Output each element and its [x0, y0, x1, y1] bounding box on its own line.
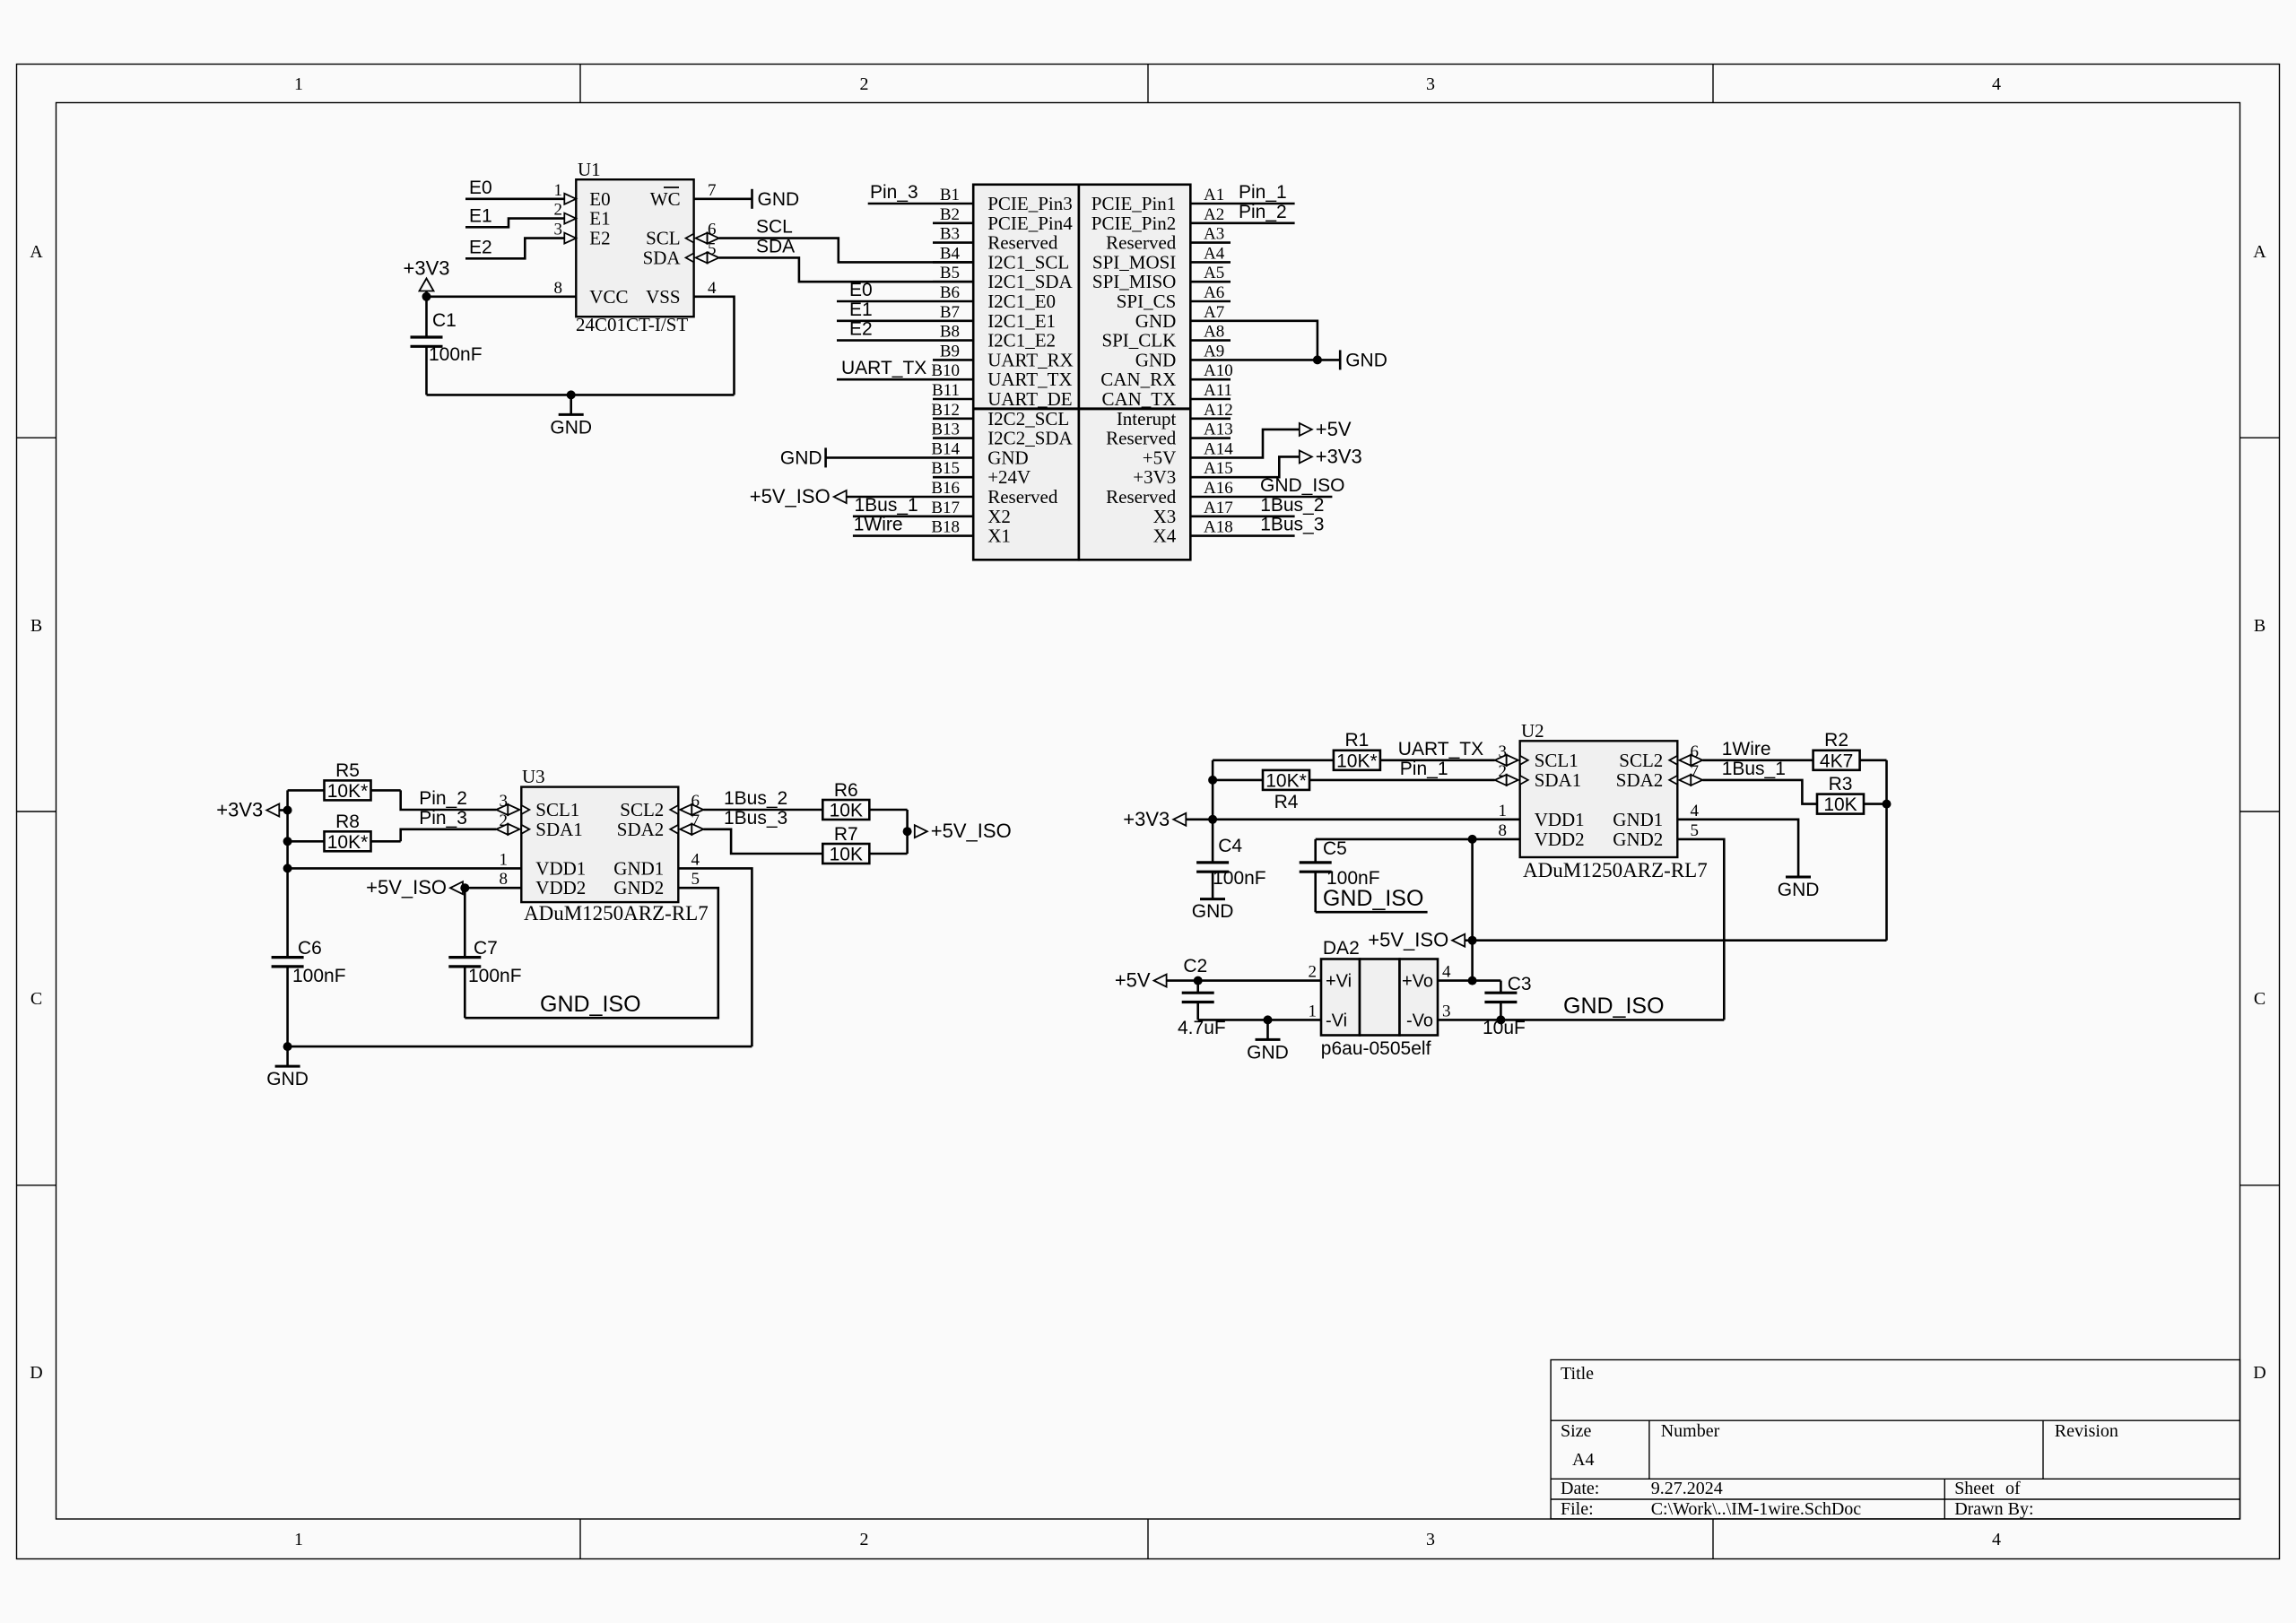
svg-text:SCL: SCL: [646, 228, 681, 249]
connector pin name A11 CAN_TX: [1101, 388, 1176, 410]
junction at U1 VCC and C1: [422, 292, 431, 301]
junction +Vo rail: [1468, 976, 1477, 985]
svg-text:R3: R3: [1829, 774, 1853, 794]
wire stub A8: [1190, 339, 1231, 342]
U2 pin number 2: [1499, 762, 1508, 781]
svg-text:B15: B15: [931, 459, 960, 478]
svg-text:A4: A4: [1204, 244, 1225, 263]
svg-text:C2: C2: [1183, 956, 1207, 976]
svg-text:Reserved: Reserved: [1106, 486, 1177, 508]
connector pin number B1: [940, 186, 960, 204]
wire R2R3 rail: [1885, 760, 1888, 941]
svg-text:Drawn By:: Drawn By:: [1954, 1499, 2033, 1519]
svg-text:A3: A3: [1204, 225, 1224, 244]
connector pin number B18: [931, 518, 960, 537]
connector pin name B3 Reserved: [987, 232, 1058, 254]
connector pin name A6 SPI_CS: [1117, 291, 1177, 312]
wire A18 1Bus_3: [1190, 534, 1294, 537]
R6 designator: [834, 780, 858, 801]
svg-text:C3: C3: [1508, 974, 1532, 994]
connector pin name B9 UART_RX: [987, 349, 1074, 370]
connector pin name A3 Reserved: [1106, 232, 1177, 254]
svg-text:10K: 10K: [830, 845, 863, 865]
connector pin name A7 GND: [1135, 310, 1177, 332]
U3 pin name SCL1: [535, 799, 579, 820]
C6 value 100nF: [292, 966, 346, 986]
svg-text:1: 1: [554, 181, 563, 200]
R5 designator: [335, 760, 360, 781]
U1 pin arrow SDA bidirectional: [686, 252, 719, 263]
svg-text:10K*: 10K*: [1336, 751, 1378, 771]
svg-text:E1: E1: [589, 208, 610, 230]
U1 pin name SCL: [646, 228, 681, 249]
svg-text:D: D: [30, 1363, 42, 1383]
svg-text:I2C1_E1: I2C1_E1: [987, 310, 1056, 332]
svg-text:X1: X1: [987, 525, 1011, 547]
svg-text:1: 1: [500, 850, 509, 869]
svg-text:B: B: [30, 616, 42, 636]
svg-text:8: 8: [554, 279, 563, 298]
svg-text:I2C2_SDA: I2C2_SDA: [987, 428, 1073, 449]
svg-text:CAN_RX: CAN_RX: [1100, 369, 1176, 390]
svg-text:2: 2: [860, 74, 869, 94]
net label GND_ISO at A16: [1260, 475, 1345, 496]
wire U2 SCL2 to R2: [1702, 759, 1813, 761]
connector pin name B6 I2C1_E0: [987, 291, 1056, 312]
svg-text:B13: B13: [931, 421, 960, 439]
connector pin number A7: [1204, 303, 1224, 322]
connector pin name B7 I2C1_E1: [987, 310, 1056, 332]
svg-text:5: 5: [691, 870, 700, 889]
connector pin name A2 PCIE_Pin2: [1091, 213, 1177, 234]
svg-text:C5: C5: [1323, 838, 1347, 859]
connector pin number B15: [931, 459, 960, 478]
connector pin name A16 Reserved: [1106, 486, 1177, 508]
svg-text:+3V3: +3V3: [1316, 445, 1362, 467]
svg-text:C: C: [30, 989, 42, 1009]
svg-text:B14: B14: [931, 439, 960, 458]
svg-text:1: 1: [1309, 1002, 1318, 1020]
connector pin name B17 X2: [987, 506, 1011, 527]
svg-text:B8: B8: [940, 323, 960, 342]
R2 designator: [1824, 730, 1848, 751]
connector pin name A12 Interupt: [1117, 408, 1177, 430]
power port +5V_ISO at B16: [750, 485, 847, 508]
connector pin number B17: [931, 499, 960, 517]
U1 pin arrow E1 input: [564, 213, 576, 224]
svg-text:E2: E2: [849, 319, 873, 340]
svg-text:3: 3: [1426, 1530, 1435, 1549]
svg-text:A16: A16: [1204, 479, 1233, 498]
net label E1 at B7: [849, 299, 873, 320]
net label E2 at B8: [849, 319, 873, 340]
svg-text:B10: B10: [931, 361, 960, 380]
svg-text:1: 1: [294, 74, 303, 94]
wire +3V3 rail at U3: [286, 790, 289, 957]
svg-text:+3V3: +3V3: [216, 799, 263, 821]
power port +3V3 at U2: [1123, 808, 1519, 830]
net label 1Bus_3 at U3: [724, 808, 787, 829]
junction rail R8: [283, 837, 292, 846]
svg-text:U2: U2: [1521, 720, 1544, 742]
connector pin name A18 X4: [1153, 525, 1177, 547]
U1 pin name E1: [589, 208, 610, 230]
U1 pin arrow SCL bidirectional: [686, 233, 719, 244]
connector pin name A15 +3V3: [1133, 466, 1176, 488]
U2 pin name VDD2: [1535, 829, 1585, 850]
svg-text:1Wire: 1Wire: [1722, 739, 1771, 759]
U3 pin name VDD2: [535, 877, 586, 898]
svg-text:PCIE_Pin4: PCIE_Pin4: [987, 213, 1073, 234]
DA2 pin number 2: [1309, 963, 1318, 982]
svg-text:E1: E1: [469, 205, 492, 226]
capacitor C6: [272, 958, 304, 1047]
connector pin number B5: [940, 264, 960, 282]
connector pin number A17: [1204, 499, 1233, 517]
wire A17 1Bus_2: [1190, 515, 1294, 517]
U1 pin name E2: [589, 228, 610, 249]
svg-text:+5V: +5V: [1143, 447, 1177, 468]
connector pin number A11: [1204, 381, 1232, 400]
svg-text:B11: B11: [932, 381, 960, 400]
wire A1 Pin_1: [1190, 203, 1294, 205]
svg-text:A4: A4: [1572, 1450, 1594, 1470]
junction C2 top: [1194, 976, 1203, 985]
wire B17 1Bus_1: [853, 515, 973, 517]
net label SCL: [756, 217, 793, 238]
connector pin name B4 I2C1_SCL: [987, 251, 1069, 273]
svg-text:X4: X4: [1153, 525, 1177, 547]
U1 pin arrow E2 input: [564, 233, 576, 244]
U3 pin name SDA1: [535, 819, 583, 840]
svg-text:E0: E0: [589, 188, 610, 210]
svg-text:C7: C7: [474, 938, 498, 959]
wire stub A5: [1190, 281, 1231, 283]
capacitor C3: [1484, 981, 1517, 1020]
U1 pin number 8: [554, 279, 563, 298]
svg-text:A18: A18: [1204, 518, 1233, 537]
svg-text:1Bus_3: 1Bus_3: [724, 808, 787, 829]
IC U3 body: [521, 787, 678, 903]
wire R5 to U3 SCL1: [401, 790, 497, 810]
ground symbol below U3: [266, 1046, 309, 1089]
wire U2 GND1 to ground: [1677, 820, 1798, 877]
svg-text:GND: GND: [1247, 1042, 1289, 1063]
svg-text:X3: X3: [1153, 506, 1177, 527]
svg-text:VDD1: VDD1: [535, 857, 586, 879]
wire A9 to GND bar: [1190, 359, 1340, 361]
wire stub A4: [1190, 261, 1231, 264]
connector pin number A4: [1204, 244, 1225, 263]
wire B18 1Wire: [853, 534, 973, 537]
svg-text:Date:: Date:: [1561, 1479, 1599, 1498]
svg-text:VDD2: VDD2: [1535, 829, 1585, 850]
C1 designator: [432, 310, 457, 331]
svg-text:GND: GND: [1345, 350, 1387, 370]
U2 pin name SDA1: [1535, 769, 1582, 791]
svg-text:+5V: +5V: [1115, 969, 1151, 992]
svg-text:VDD2: VDD2: [535, 877, 586, 898]
svg-text:A10: A10: [1204, 361, 1233, 380]
C2 value 4.7uF: [1178, 1018, 1226, 1038]
U1 pin name E0: [589, 188, 610, 210]
wire +5V_ISO rail at U2: [1471, 839, 1474, 981]
C5 value 100nF: [1326, 868, 1380, 889]
wire GND_ISO net at DA2: [1438, 1019, 1724, 1021]
svg-text:Pin_3: Pin_3: [870, 182, 918, 203]
svg-text:VDD1: VDD1: [1535, 809, 1585, 830]
svg-text:7: 7: [708, 181, 717, 200]
svg-text:R1: R1: [1344, 730, 1369, 751]
svg-text:A14: A14: [1204, 439, 1233, 458]
wire A16 GND_ISO: [1190, 496, 1332, 499]
svg-text:1: 1: [294, 1530, 303, 1549]
svg-text:Pin_1: Pin_1: [1239, 182, 1287, 203]
svg-text:A17: A17: [1204, 499, 1233, 517]
svg-text:X2: X2: [987, 506, 1011, 527]
svg-text:UART_TX: UART_TX: [987, 369, 1072, 390]
R3 designator: [1829, 774, 1853, 794]
svg-text:1: 1: [1499, 802, 1508, 820]
wire B1 Pin_3: [868, 203, 973, 205]
connector pin number A5: [1204, 264, 1224, 282]
U2 pin name VDD1: [1535, 809, 1585, 830]
svg-text:+Vo: +Vo: [1402, 972, 1433, 992]
svg-text:B4: B4: [940, 244, 961, 263]
svg-text:C6: C6: [298, 938, 322, 959]
wire DA2 +Vo to C3: [1438, 979, 1500, 982]
U1 pin name WC with overline: [650, 187, 681, 210]
R7 designator: [834, 824, 858, 845]
svg-text:8: 8: [500, 870, 509, 889]
C7 value 100nF: [468, 966, 522, 986]
U1 designator: [578, 159, 601, 180]
net label 1Bus_3 at A18: [1260, 515, 1324, 535]
net label SDA: [756, 236, 795, 256]
connector pin name B2 PCIE_Pin4: [987, 213, 1073, 234]
wire A14 to +5V: [1190, 430, 1300, 458]
svg-text:B18: B18: [931, 518, 960, 537]
svg-text:B9: B9: [940, 342, 960, 360]
junction rail R4: [1208, 776, 1217, 785]
connector pin name B1 PCIE_Pin3: [987, 193, 1073, 214]
connector pin name A4 SPI_MOSI: [1092, 251, 1176, 273]
svg-text:SDA2: SDA2: [617, 819, 665, 840]
svg-text:C:\Work\..\IM-1wire.SchDoc: C:\Work\..\IM-1wire.SchDoc: [1651, 1499, 1862, 1519]
C1 value 100nF: [429, 344, 483, 365]
svg-text:E2: E2: [469, 237, 492, 257]
connector pin name A8 SPI_CLK: [1101, 330, 1176, 352]
svg-text:SDA1: SDA1: [1535, 769, 1582, 791]
svg-text:E2: E2: [589, 228, 610, 249]
connector pin name A14 +5V: [1143, 447, 1177, 468]
DA2 pin number 4: [1442, 963, 1451, 982]
wire U3 SCL2 to R6: [703, 809, 822, 811]
U3 pin arrow SDA1: [496, 824, 529, 835]
svg-text:R8: R8: [335, 811, 360, 832]
wire stub B12: [933, 417, 973, 420]
wire B7 E1: [837, 319, 973, 322]
svg-text:R7: R7: [834, 824, 858, 845]
svg-text:GND2: GND2: [613, 877, 664, 898]
svg-text:D: D: [2253, 1363, 2266, 1383]
svg-text:A2: A2: [1204, 205, 1224, 224]
power port +3V3 at U3: [216, 799, 287, 821]
net label 1Bus_1 at U2: [1722, 759, 1786, 779]
svg-text:1Bus_1: 1Bus_1: [855, 495, 918, 516]
C4 designator: [1218, 836, 1242, 856]
wire +5V to DA2 +Vi: [1167, 979, 1321, 982]
svg-text:GND: GND: [1778, 880, 1820, 900]
svg-text:1Bus_2: 1Bus_2: [1260, 495, 1324, 516]
svg-text:SPI_MISO: SPI_MISO: [1092, 271, 1176, 292]
connector pin name A1 PCIE_Pin1: [1091, 193, 1177, 214]
resistor R5: [288, 780, 401, 802]
wire U1 pin4 VSS down: [694, 297, 735, 395]
U3 pin number 5: [691, 870, 700, 889]
svg-text:B17: B17: [931, 499, 960, 517]
net label E1 at U1: [469, 205, 492, 226]
svg-text:Sheet: Sheet: [1954, 1479, 1995, 1498]
connector pin name B16 Reserved: [987, 486, 1058, 508]
wire A15 to +3V3: [1190, 456, 1300, 477]
U1 pin number 6: [708, 221, 717, 239]
ground symbol below C4: [1192, 899, 1234, 922]
svg-text:-Vo: -Vo: [1406, 1011, 1433, 1030]
U3 pin number 4: [691, 850, 700, 869]
svg-text:100nF: 100nF: [1213, 868, 1266, 889]
wire +3V3 rail at U2: [1212, 760, 1214, 863]
U1 pin name VSS: [646, 286, 681, 308]
U1 pin number 7: [708, 181, 717, 200]
wire E1 to U1 pin2: [465, 219, 564, 228]
connector pin number B10: [931, 361, 960, 380]
U1 pin number 5: [708, 239, 717, 258]
power port +5V_ISO at U3 VDD2: [366, 876, 521, 898]
U1 pin number 1: [554, 181, 563, 200]
svg-text:U1: U1: [578, 159, 601, 180]
connector pin name B15 +24V: [987, 466, 1031, 488]
wire stub B15: [933, 476, 973, 479]
svg-text:2: 2: [554, 201, 563, 220]
connector pin number B9: [940, 342, 960, 360]
svg-text:+5V_ISO: +5V_ISO: [750, 485, 831, 508]
capacitor C2: [1182, 981, 1214, 1020]
svg-text:Size: Size: [1561, 1421, 1592, 1441]
U3 pin arrow SCL1: [496, 804, 529, 815]
svg-text:of: of: [2005, 1479, 2021, 1498]
ground bar at U1 WC: [752, 189, 800, 210]
resistor R3: [1817, 794, 1887, 816]
svg-text:4: 4: [1442, 963, 1451, 982]
capacitor C5: [1300, 839, 1332, 912]
svg-text:SPI_CLK: SPI_CLK: [1101, 330, 1176, 352]
svg-text:VCC: VCC: [589, 286, 628, 308]
U3 pin name VDD1: [535, 857, 586, 879]
wire stub B13: [933, 437, 973, 439]
wire +5V_ISO to R2R3 rail: [1473, 939, 1887, 942]
C4 value 100nF: [1213, 868, 1266, 889]
U2 pin number 5: [1691, 821, 1700, 840]
svg-text:SPI_CS: SPI_CS: [1117, 291, 1177, 312]
svg-text:3: 3: [1442, 1002, 1451, 1020]
C5 designator: [1323, 838, 1347, 859]
svg-text:E0: E0: [849, 280, 873, 300]
connector pin number B3: [940, 225, 960, 244]
capacitor C4: [1196, 863, 1229, 899]
svg-text:R6: R6: [834, 780, 858, 801]
svg-text:GND2: GND2: [1613, 829, 1663, 850]
DA2 designator: [1323, 938, 1360, 959]
svg-text:C4: C4: [1218, 836, 1242, 856]
svg-text:SCL2: SCL2: [620, 799, 664, 820]
connector pin number B8: [940, 323, 960, 342]
svg-text:B3: B3: [940, 225, 960, 244]
C2 designator: [1183, 956, 1207, 976]
svg-text:B5: B5: [940, 264, 960, 282]
connector pin name B14 GND: [987, 447, 1029, 468]
power port +5V_ISO at U2: [1368, 929, 1472, 951]
svg-text:UART_TX: UART_TX: [841, 358, 926, 378]
ground bar at B14: [780, 447, 826, 468]
net label UART_TX at U2: [1398, 739, 1483, 759]
svg-text:3: 3: [554, 221, 563, 239]
svg-text:3: 3: [1426, 74, 1435, 94]
svg-text:10K: 10K: [830, 801, 863, 821]
net label 1Bus_1 at B17: [855, 495, 918, 516]
svg-text:Reserved: Reserved: [1106, 428, 1177, 449]
svg-text:I2C1_E0: I2C1_E0: [987, 291, 1056, 312]
C7 designator: [474, 938, 498, 959]
junction -Vi ground: [1264, 1015, 1273, 1024]
U1 pin name VCC: [589, 286, 628, 308]
svg-text:Revision: Revision: [2055, 1421, 2118, 1441]
U2 pin name GND1: [1613, 809, 1663, 830]
svg-text:I2C1_SDA: I2C1_SDA: [987, 271, 1073, 292]
svg-text:B2: B2: [940, 205, 960, 224]
svg-text:+3V3: +3V3: [404, 257, 450, 280]
svg-text:1Bus_3: 1Bus_3: [1260, 515, 1324, 535]
junction C3 bottom: [1496, 1015, 1505, 1024]
U2 pin name GND2: [1613, 829, 1663, 850]
connector pin name A17 X3: [1153, 506, 1177, 527]
svg-text:B6: B6: [940, 283, 960, 302]
connector pin number A16: [1204, 479, 1233, 498]
svg-text:24C01CT-I/ST: 24C01CT-I/ST: [576, 314, 688, 335]
connector pin name B13 I2C2_SDA: [987, 428, 1073, 449]
svg-text:PCIE_Pin2: PCIE_Pin2: [1091, 213, 1177, 234]
svg-text:Interupt: Interupt: [1117, 408, 1177, 430]
svg-text:GND_ISO: GND_ISO: [1323, 886, 1424, 911]
svg-text:8: 8: [1499, 821, 1508, 840]
U3 pin number 1: [500, 850, 509, 869]
svg-text:10K*: 10K*: [327, 781, 369, 802]
net label 1Wire at B18: [854, 515, 903, 535]
wire stub B11: [933, 398, 973, 401]
DA2 pin name -Vo: [1406, 1011, 1433, 1030]
C6 designator: [298, 938, 322, 959]
DA2 pin name +Vo: [1402, 972, 1433, 992]
wire stub A13: [1190, 437, 1231, 439]
svg-text:4: 4: [691, 850, 700, 869]
svg-text:File:: File:: [1561, 1499, 1594, 1519]
svg-text:+5V: +5V: [1316, 418, 1352, 440]
svg-text:10K*: 10K*: [327, 832, 369, 853]
svg-text:A15: A15: [1204, 459, 1233, 478]
junction C7 top: [460, 883, 469, 892]
svg-text:SDA2: SDA2: [1616, 769, 1664, 791]
svg-text:GND1: GND1: [613, 857, 664, 879]
